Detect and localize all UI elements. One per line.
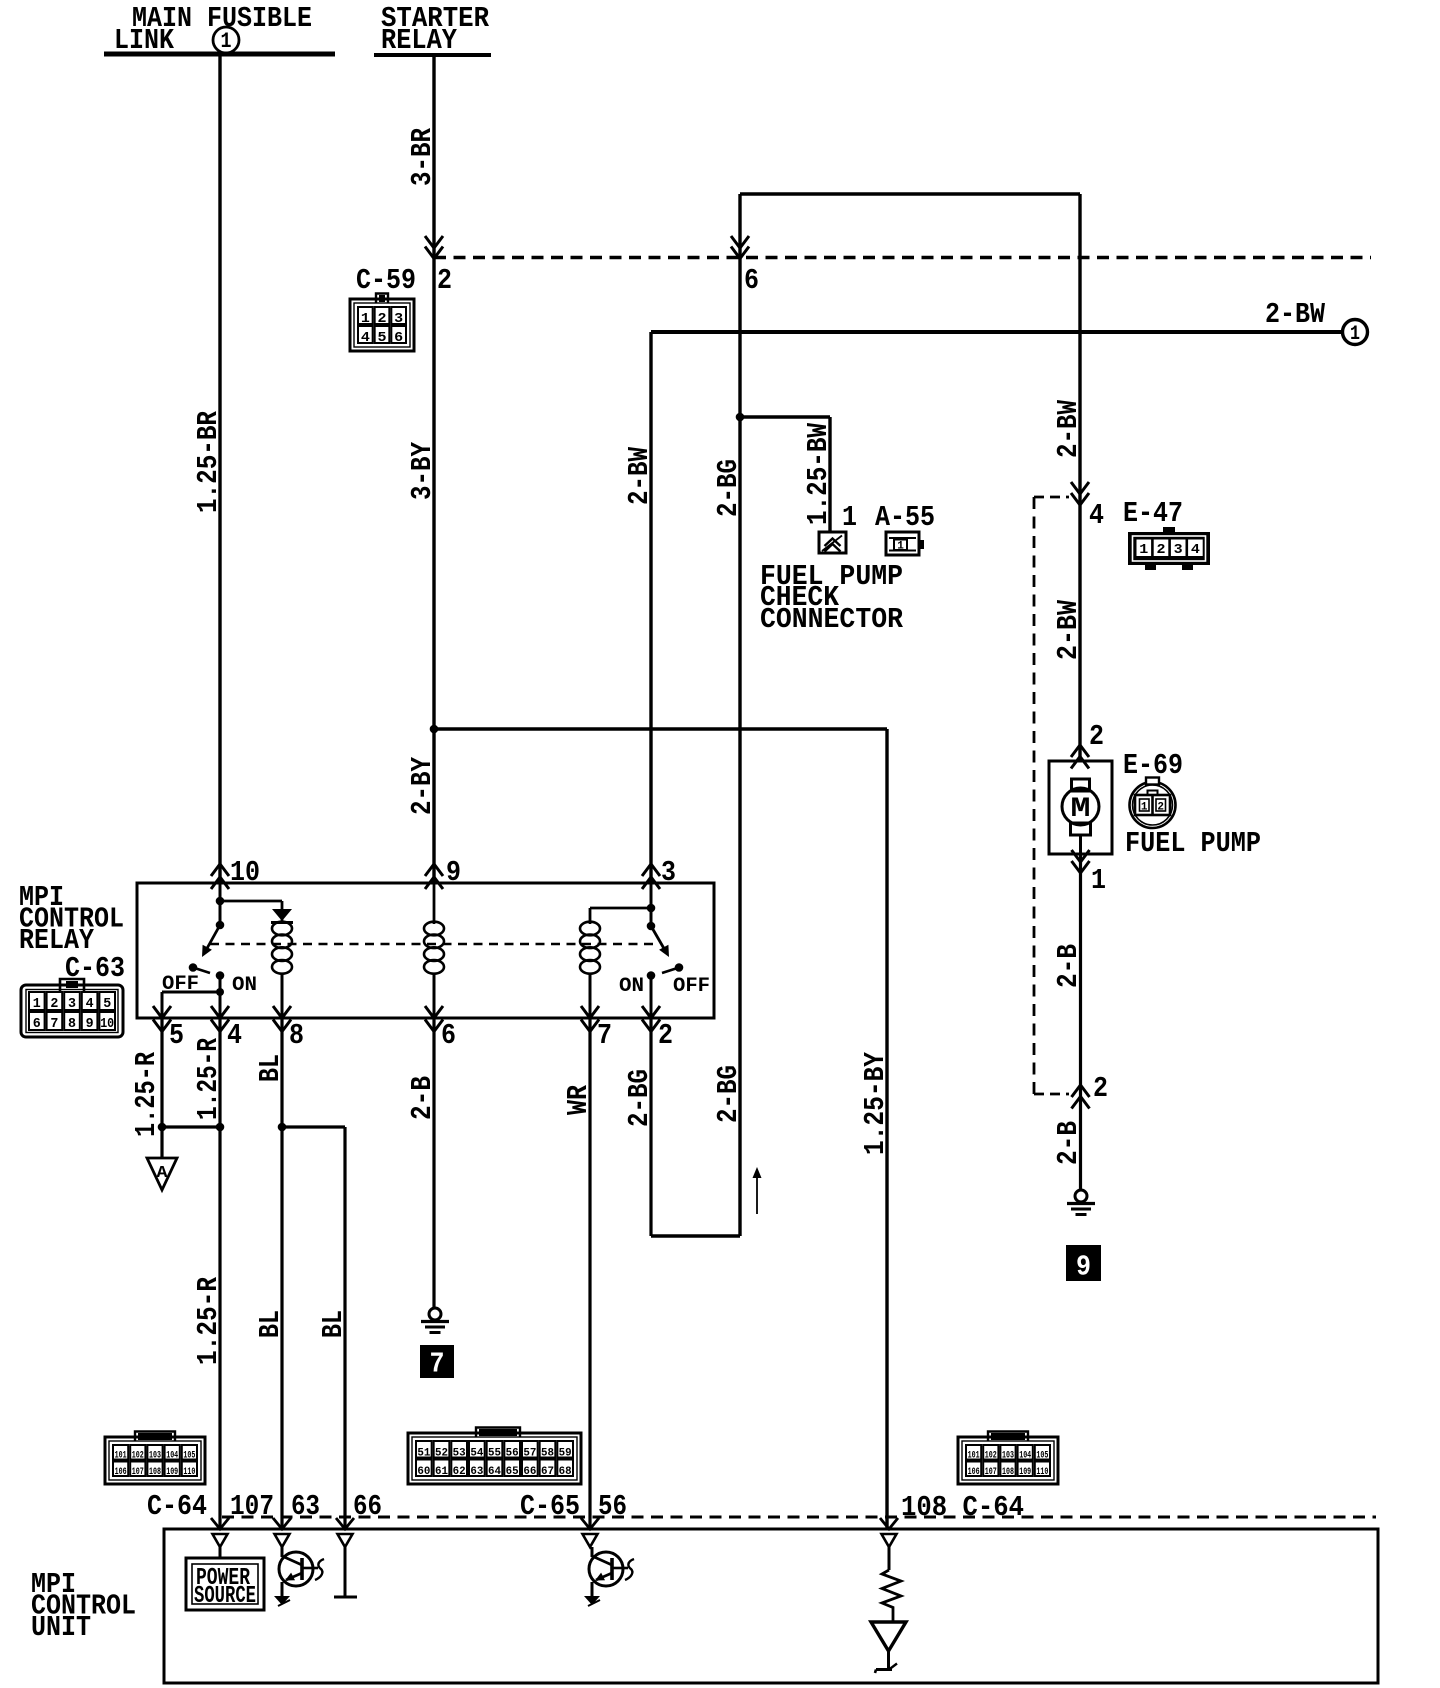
svg-text:A-55: A-55 xyxy=(875,501,935,534)
svg-text:108: 108 xyxy=(1002,1467,1014,1478)
svg-text:103: 103 xyxy=(1002,1451,1014,1462)
mechanical linkage dashed xyxy=(210,943,658,945)
svg-text:2: 2 xyxy=(658,1019,673,1052)
svg-text:53: 53 xyxy=(453,1448,466,1460)
svg-text:1: 1 xyxy=(1141,802,1148,814)
arrow into C-59 pin 6 xyxy=(731,236,749,248)
svg-text:2: 2 xyxy=(1093,1072,1108,1105)
triode / zener to ground xyxy=(871,1622,906,1651)
dashed harness bracket at fuel pump xyxy=(1034,496,1069,499)
diode xyxy=(272,909,292,921)
svg-text:3: 3 xyxy=(661,856,676,889)
svg-text:CONNECTOR: CONNECTOR xyxy=(760,603,904,636)
svg-text:5: 5 xyxy=(103,996,111,1012)
svg-text:1: 1 xyxy=(897,541,904,553)
wire 1.25-R pin 5 xyxy=(160,1018,163,1158)
svg-text:6: 6 xyxy=(744,264,759,297)
svg-text:3: 3 xyxy=(1174,542,1183,558)
ground (pin 6) xyxy=(429,1308,441,1320)
wire 1.25-BY branch to MPI unit 108 xyxy=(434,727,887,730)
svg-text:66: 66 xyxy=(353,1490,382,1523)
dashed connector line C-64/C-65 xyxy=(222,1516,1376,1519)
svg-text:WR: WR xyxy=(562,1084,595,1115)
wire top horizontal joining 2-BG and 2-BW columns xyxy=(740,192,1080,195)
svg-text:68: 68 xyxy=(559,1466,572,1478)
connector icon C-64 right xyxy=(988,1432,1028,1442)
relay internal: junction pin 10 xyxy=(219,883,222,926)
svg-text:58: 58 xyxy=(541,1448,554,1460)
svg-text:5: 5 xyxy=(169,1019,184,1052)
svg-text:5: 5 xyxy=(378,330,387,346)
transistor (63 driver) xyxy=(279,1552,313,1586)
svg-text:10: 10 xyxy=(230,856,260,889)
junction of 2-BY branch xyxy=(430,725,439,734)
relay pin 8 arrow xyxy=(273,1006,291,1018)
connector icon E-47 xyxy=(1163,527,1175,534)
svg-text:2: 2 xyxy=(1157,802,1164,814)
svg-text:FUEL PUMP: FUEL PUMP xyxy=(1125,827,1261,860)
svg-text:3-BY: 3-BY xyxy=(406,442,439,500)
svg-text:105: 105 xyxy=(1036,1451,1048,1462)
internal ground (66) xyxy=(344,1547,347,1596)
svg-text:4: 4 xyxy=(1089,499,1104,532)
svg-text:59: 59 xyxy=(559,1448,572,1460)
arrow out of fuel pump pin 1 xyxy=(1072,850,1090,862)
svg-text:E-47: E-47 xyxy=(1123,497,1183,530)
svg-text:1: 1 xyxy=(1350,323,1360,346)
svg-text:3: 3 xyxy=(68,996,76,1012)
switch 1 (pins 10-4/5) xyxy=(216,921,225,930)
wire 2-BG pin 2 xyxy=(649,1018,652,1236)
svg-text:1: 1 xyxy=(33,996,41,1012)
svg-text:104: 104 xyxy=(1019,1451,1031,1462)
svg-text:BL: BL xyxy=(254,1310,287,1338)
relay pin 2 arrow xyxy=(642,1006,660,1018)
entry arrow MPI unit xyxy=(336,1518,354,1529)
relay coil 3 (pins 3-7) xyxy=(647,904,656,913)
wire 2-BW vertical to fuel pump xyxy=(1078,194,1081,761)
wire 1.25-R pin 4 to MPI unit 107 xyxy=(218,1018,221,1529)
svg-text:4: 4 xyxy=(227,1019,242,1052)
svg-text:110: 110 xyxy=(183,1467,195,1478)
svg-text:65: 65 xyxy=(506,1466,519,1478)
svg-text:106: 106 xyxy=(115,1467,127,1478)
relay coil 2 (pins 9-6) xyxy=(433,883,436,924)
svg-text:107: 107 xyxy=(230,1490,274,1523)
transistor (56 driver) xyxy=(589,1552,623,1586)
ground (fuel pump) xyxy=(1075,1190,1087,1202)
relay pin 4 arrow xyxy=(211,1006,229,1018)
svg-text:66: 66 xyxy=(523,1466,536,1478)
svg-text:A: A xyxy=(157,1164,169,1183)
svg-text:6: 6 xyxy=(441,1019,456,1052)
arrow into C-59 pin 2 xyxy=(425,236,443,248)
connector icon C-63 xyxy=(60,979,84,991)
entry arrow MPI unit xyxy=(581,1518,599,1529)
entry arrow MPI unit xyxy=(211,1518,229,1529)
MPI control unit box xyxy=(164,1529,1378,1683)
wire WR pin 7 to MPI unit 56 xyxy=(588,1018,591,1529)
svg-text:104: 104 xyxy=(166,1451,178,1462)
fuel pump motor E-69 xyxy=(1049,761,1112,854)
svg-text:RELAY: RELAY xyxy=(381,24,458,57)
arrow into E-47 pin 4 xyxy=(1071,482,1089,494)
svg-text:105: 105 xyxy=(183,1451,195,1462)
wire 2-BY junction to relay pin 9 xyxy=(432,729,435,883)
svg-text:2: 2 xyxy=(378,311,387,327)
svg-text:1: 1 xyxy=(1091,864,1106,897)
svg-text:108: 108 xyxy=(149,1467,161,1478)
svg-text:106: 106 xyxy=(968,1467,980,1478)
svg-text:109: 109 xyxy=(1019,1467,1031,1478)
svg-text:9: 9 xyxy=(1076,1251,1091,1284)
svg-text:2: 2 xyxy=(437,264,452,297)
svg-text:C-59: C-59 xyxy=(356,264,416,297)
svg-text:2: 2 xyxy=(1089,720,1104,753)
svg-text:1: 1 xyxy=(361,311,370,327)
svg-text:2: 2 xyxy=(50,996,58,1012)
svg-text:M: M xyxy=(1071,794,1091,825)
svg-text:2-BW: 2-BW xyxy=(623,447,656,505)
svg-text:103: 103 xyxy=(149,1451,161,1462)
svg-text:110: 110 xyxy=(1036,1467,1048,1478)
svg-text:2: 2 xyxy=(1157,542,1166,558)
relay pin 3 arrow xyxy=(642,864,660,876)
resistor (108) xyxy=(888,1547,891,1570)
MPI control relay box C-63 xyxy=(137,883,714,1018)
relay pin 5 arrow xyxy=(153,1006,171,1018)
relay pin 10 arrow xyxy=(211,864,229,876)
svg-text:102: 102 xyxy=(985,1451,997,1462)
svg-text:56: 56 xyxy=(598,1490,627,1523)
wire joining pins 5 and 4 xyxy=(162,1125,220,1128)
wire BL pin 8 to MPI unit 63 xyxy=(280,1018,283,1529)
relay coil 1 xyxy=(281,901,284,924)
svg-text:2-BG: 2-BG xyxy=(712,1065,745,1123)
switch 2 (pins 3-2) xyxy=(650,883,653,926)
connector icon C-64 left xyxy=(135,1432,175,1442)
svg-text:BL: BL xyxy=(254,1054,287,1082)
svg-text:57: 57 xyxy=(523,1448,536,1460)
svg-text:UNIT: UNIT xyxy=(31,1611,91,1644)
relay pin 9 arrow xyxy=(425,864,443,876)
wire 2-BW from relay pin 3 to fuel gauge unit (circle 1) xyxy=(649,332,652,883)
svg-text:1.25-BR: 1.25-BR xyxy=(192,411,225,513)
svg-text:ON: ON xyxy=(232,974,257,997)
svg-text:1: 1 xyxy=(842,501,857,534)
wire 2-B from fuel pump to ground xyxy=(1079,854,1082,1190)
svg-text:C-65: C-65 xyxy=(520,1490,580,1523)
svg-text:107: 107 xyxy=(985,1467,997,1478)
svg-text:1.25-R: 1.25-R xyxy=(192,1277,225,1365)
connector icon E-69 (round) xyxy=(1130,782,1176,828)
svg-text:7: 7 xyxy=(430,1348,445,1381)
svg-text:8: 8 xyxy=(289,1019,304,1052)
svg-text:63: 63 xyxy=(470,1466,483,1478)
power source box xyxy=(219,1547,222,1558)
dashed connector line C-59 xyxy=(434,256,1371,259)
wire 1.25-BW branch to fuel pump check connector xyxy=(740,415,830,418)
svg-text:9: 9 xyxy=(86,1016,94,1032)
svg-text:8: 8 xyxy=(68,1016,76,1032)
svg-text:101: 101 xyxy=(115,1451,127,1462)
svg-text:1.25-R: 1.25-R xyxy=(192,1038,225,1120)
svg-text:55: 55 xyxy=(488,1448,501,1460)
starter relay bus bar xyxy=(374,53,491,57)
svg-text:63: 63 xyxy=(291,1490,320,1523)
svg-text:2-BW: 2-BW xyxy=(1052,400,1085,458)
wire BL branch to 66 xyxy=(282,1125,345,1128)
svg-text:7: 7 xyxy=(597,1019,612,1052)
svg-text:62: 62 xyxy=(453,1466,466,1478)
svg-text:52: 52 xyxy=(435,1448,448,1460)
arrow harness junction pin 2 xyxy=(1072,1085,1090,1097)
svg-text:BL: BL xyxy=(317,1310,350,1338)
main fusible link bus bar xyxy=(104,52,335,57)
intermediate terminal icon xyxy=(819,532,846,553)
entry arrow MPI unit xyxy=(880,1518,898,1529)
junction to fuel pump check connector xyxy=(736,413,745,422)
svg-text:60: 60 xyxy=(417,1466,430,1478)
arrow into fuel pump E-69 pin 2 xyxy=(1071,745,1089,757)
svg-text:1.25-R: 1.25-R xyxy=(130,1052,163,1137)
connector icon A-55 xyxy=(886,532,919,555)
wire 2-B pin 6 to ground xyxy=(432,1018,435,1308)
triangle ground A xyxy=(147,1158,177,1190)
wire 3-BR starter relay to connector C-59 pin 2 xyxy=(432,57,435,729)
svg-text:7: 7 xyxy=(50,1016,58,1032)
svg-text:2-BY: 2-BY xyxy=(406,757,439,815)
svg-text:1: 1 xyxy=(221,29,232,54)
svg-text:SOURCE: SOURCE xyxy=(194,1583,256,1610)
wire 1.25-BR from main fusible link to relay pin 10 xyxy=(218,56,221,883)
svg-text:51: 51 xyxy=(417,1448,430,1460)
svg-text:2-BW: 2-BW xyxy=(1265,298,1326,331)
svg-text:3: 3 xyxy=(394,311,403,327)
svg-text:9: 9 xyxy=(446,856,461,889)
svg-text:108 C-64: 108 C-64 xyxy=(901,1491,1024,1524)
svg-text:2-B: 2-B xyxy=(406,1076,439,1120)
svg-text:C-64: C-64 xyxy=(147,1490,207,1523)
svg-text:3-BR: 3-BR xyxy=(406,128,439,186)
connector icon C-59 xyxy=(376,294,388,304)
svg-text:6: 6 xyxy=(33,1016,41,1032)
svg-text:6: 6 xyxy=(394,330,403,346)
svg-text:2-BG: 2-BG xyxy=(712,459,745,517)
svg-text:64: 64 xyxy=(488,1466,501,1478)
svg-text:54: 54 xyxy=(470,1448,483,1460)
relay pin 6 arrow xyxy=(425,1006,443,1018)
svg-text:OFF: OFF xyxy=(673,975,710,998)
off-page connector circle 1 xyxy=(1343,320,1368,345)
connector icon C-65 xyxy=(476,1428,520,1438)
svg-text:4: 4 xyxy=(1191,542,1200,558)
flow direction arrow xyxy=(756,1174,758,1214)
svg-text:2-BW: 2-BW xyxy=(1052,599,1085,660)
svg-text:1.25-BW: 1.25-BW xyxy=(802,423,835,525)
svg-text:4: 4 xyxy=(86,996,94,1012)
svg-text:ON: ON xyxy=(619,975,644,998)
ground ref 9 black box xyxy=(1066,1245,1101,1281)
ground ref 7 black box xyxy=(420,1345,454,1378)
svg-text:1.25-BY: 1.25-BY xyxy=(859,1052,892,1155)
svg-text:102: 102 xyxy=(132,1451,144,1462)
svg-text:1: 1 xyxy=(1139,542,1148,558)
svg-text:2-B: 2-B xyxy=(1052,944,1085,988)
relay pin 7 arrow xyxy=(581,1006,599,1018)
svg-text:107: 107 xyxy=(132,1467,144,1478)
svg-text:101: 101 xyxy=(968,1451,980,1462)
svg-text:2-B: 2-B xyxy=(1052,1121,1085,1165)
svg-text:2-BG: 2-BG xyxy=(623,1069,656,1127)
svg-text:61: 61 xyxy=(435,1466,448,1478)
entry arrow MPI unit xyxy=(273,1518,291,1529)
svg-text:67: 67 xyxy=(541,1466,554,1478)
svg-text:10: 10 xyxy=(100,1016,114,1032)
svg-text:4: 4 xyxy=(361,330,370,346)
svg-text:109: 109 xyxy=(166,1467,178,1478)
wire 2-BG vertical (C-59 pin 6 to fuel pump relay circuit) xyxy=(738,194,741,1236)
svg-text:56: 56 xyxy=(506,1448,519,1460)
